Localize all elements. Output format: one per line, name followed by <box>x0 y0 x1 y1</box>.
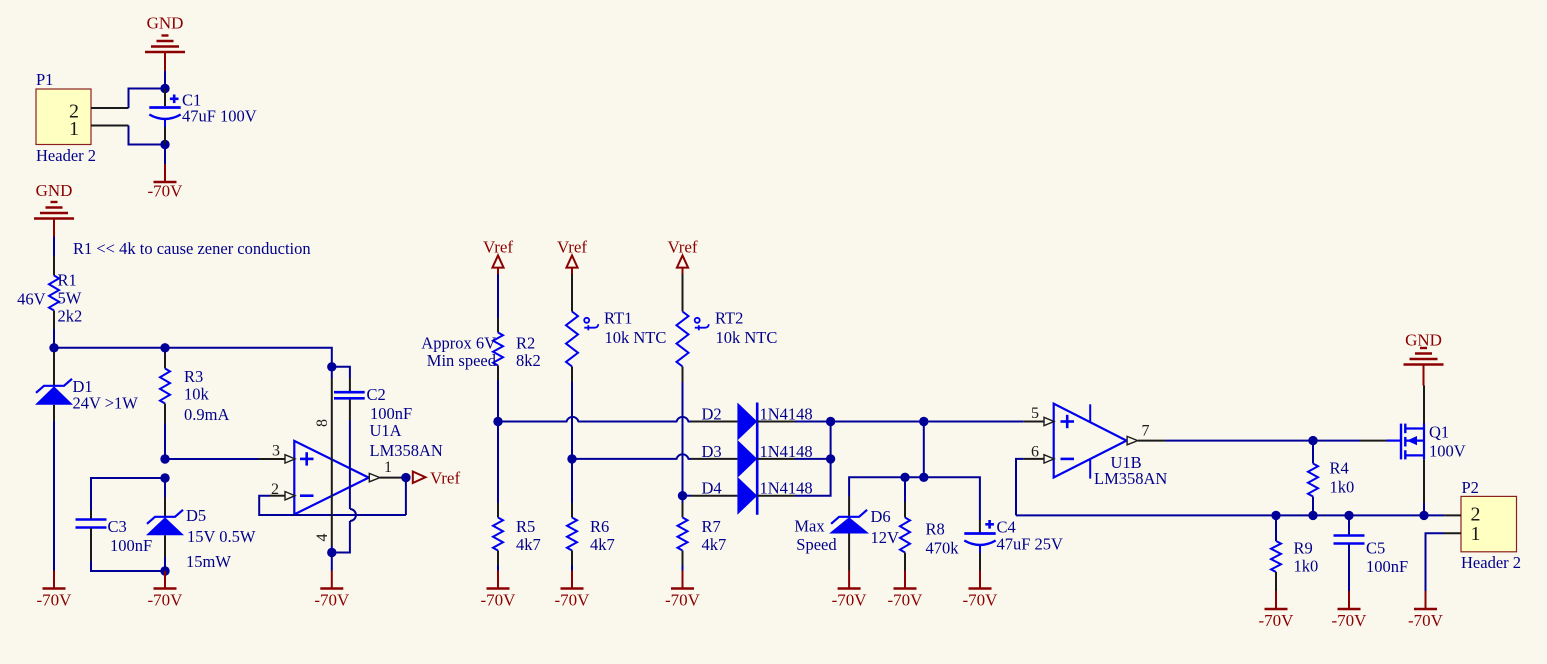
svg-text:-70V: -70V <box>148 182 184 201</box>
node D junction (R3 top) <box>160 343 169 352</box>
svg-text:3: 3 <box>272 443 280 460</box>
pin 4 of U1A <box>331 546 333 553</box>
zener diode D1 24V >1W <box>53 352 55 386</box>
svg-text:R3: R3 <box>184 367 203 386</box>
svg-text:GND: GND <box>1405 331 1442 350</box>
wire P1 pin2 to node A <box>129 89 166 109</box>
svg-text:6: 6 <box>1031 443 1039 460</box>
wire U1B output to Q1 gate <box>1166 440 1361 442</box>
svg-text:-70V: -70V <box>1332 611 1368 630</box>
svg-text:R1 << 4k to cause zener conduc: R1 << 4k to cause zener conduction <box>73 239 311 258</box>
svg-text:1k0: 1k0 <box>1330 478 1355 497</box>
wire R1 to node C <box>53 329 55 348</box>
svg-text:47uF 100V: 47uF 100V <box>182 107 257 126</box>
resistor R1 5W 2k2 <box>53 256 55 276</box>
node Q junction <box>919 473 928 482</box>
pin 1 of U1A (output) <box>369 473 380 481</box>
svg-text:8: 8 <box>314 419 331 427</box>
node A junction <box>160 84 169 93</box>
svg-text:0.9mA: 0.9mA <box>184 405 229 424</box>
power -70V below C4 <box>979 571 981 589</box>
resistor R9 1k0 <box>1275 515 1277 541</box>
node K junction (R2/R5 tap) <box>493 417 502 426</box>
svg-text:-70V: -70V <box>481 591 517 610</box>
resistor R7 4k7 <box>682 496 684 503</box>
node T junction (R9) <box>1271 511 1280 520</box>
svg-text:470k: 470k <box>926 539 960 558</box>
svg-text:Min speed: Min speed <box>427 351 497 370</box>
svg-text:47uF 25V: 47uF 25V <box>997 535 1064 554</box>
diode D4 1N4148 <box>691 495 737 497</box>
svg-text:R4: R4 <box>1330 459 1349 478</box>
svg-text:1: 1 <box>384 459 392 476</box>
node P junction (sum node) <box>919 417 928 426</box>
wire output rail <box>1016 514 1444 516</box>
svg-text:Max: Max <box>794 517 825 536</box>
capacitor C3 100nF <box>91 478 165 510</box>
svg-text:R1: R1 <box>58 271 77 290</box>
svg-text:GND: GND <box>147 14 184 33</box>
svg-text:8k2: 8k2 <box>516 351 541 370</box>
svg-text:2k2: 2k2 <box>58 307 83 326</box>
pin 3 of U1A <box>258 458 285 460</box>
thermistor RT2 10k NTC <box>682 274 684 312</box>
svg-text:P2: P2 <box>1462 478 1479 497</box>
svg-text:-70V: -70V <box>963 591 999 610</box>
svg-text:Header 2: Header 2 <box>1461 553 1521 572</box>
svg-text:Vref: Vref <box>430 469 460 488</box>
power port Vref 1 <box>492 255 503 267</box>
diode D3 1N4148 <box>691 458 737 460</box>
svg-text:Vref: Vref <box>667 238 697 257</box>
svg-text:10k NTC: 10k NTC <box>716 328 778 347</box>
svg-text:4k7: 4k7 <box>590 535 615 554</box>
wire Q1 source to output rail <box>1423 459 1425 503</box>
svg-text:46V: 46V <box>17 290 46 309</box>
pin 5 of U1B <box>1024 421 1044 423</box>
wire rail1 with hops to D2 <box>498 417 691 422</box>
svg-text:-70V: -70V <box>888 591 924 610</box>
power -70V below P2 <box>1425 591 1427 609</box>
capacitor C1 47uF 100V <box>164 89 166 107</box>
svg-text:Vref: Vref <box>557 238 587 257</box>
power port Vref output <box>413 472 426 484</box>
wire U1A feedback (pin2 loop) <box>259 496 406 515</box>
svg-text:100nF: 100nF <box>110 536 152 555</box>
node O junction <box>826 454 835 463</box>
svg-text:R8: R8 <box>926 520 945 539</box>
pin 2 of U1A <box>270 495 285 497</box>
capacitor C4 47uF 25V <box>979 520 981 533</box>
wire node N to U1B pin5 <box>831 421 1024 423</box>
svg-text:D3: D3 <box>702 442 722 461</box>
wire max-speed rail <box>849 477 980 520</box>
svg-text:15mW: 15mW <box>186 552 231 571</box>
svg-text:5: 5 <box>1031 405 1039 422</box>
svg-text:-70V: -70V <box>832 591 868 610</box>
svg-text:-70V: -70V <box>37 591 73 610</box>
resistor R4 1k0 <box>1312 441 1314 464</box>
power -70V below R6 <box>571 571 573 589</box>
wire D4 cathode <box>757 495 795 497</box>
svg-text:Vref: Vref <box>483 238 513 257</box>
svg-text:LM358AN: LM358AN <box>370 441 443 460</box>
svg-text:Approx 6V: Approx 6V <box>421 334 496 353</box>
svg-text:10k: 10k <box>184 385 210 404</box>
node L junction (RT1/R6 tap) <box>567 454 576 463</box>
svg-text:4: 4 <box>314 534 331 542</box>
svg-text:D6: D6 <box>871 507 891 526</box>
svg-text:R6: R6 <box>590 517 609 536</box>
svg-text:C5: C5 <box>1366 539 1385 558</box>
wire output down to feedback <box>405 478 407 515</box>
svg-text:Q1: Q1 <box>1429 423 1449 442</box>
power -70V below R8 <box>904 571 906 589</box>
svg-text:R9: R9 <box>1294 539 1313 558</box>
capacitor C2 100nF <box>332 367 350 378</box>
svg-text:R2: R2 <box>516 334 535 353</box>
wire P2 pin1 to -70V <box>1426 533 1445 591</box>
svg-text:15V 0.5W: 15V 0.5W <box>187 527 256 546</box>
pin 7 of U1B (output) <box>1127 436 1138 444</box>
wire D2 cathode to node N <box>757 421 795 423</box>
wire GND to R1 <box>53 237 55 257</box>
node I junction (pin4/C2 bottom) <box>327 548 336 557</box>
node E junction (C2 / pin8) <box>327 362 336 371</box>
resistor R6 4k7 <box>571 459 573 503</box>
capacitor C5 100nF <box>1348 515 1350 535</box>
svg-text:-70V: -70V <box>1259 611 1295 630</box>
svg-text:C2: C2 <box>367 385 386 404</box>
wire U1B feedback from rail <box>1016 459 1024 516</box>
node C junction <box>49 343 58 352</box>
node U junction (R4 bottom) <box>1308 511 1317 520</box>
zener diode D5 15V 0.5W <box>164 497 166 517</box>
wire GND to node C1-top <box>164 71 166 89</box>
power -70V below R9 <box>1275 591 1277 609</box>
svg-text:1k0: 1k0 <box>1294 557 1319 576</box>
svg-text:-70V: -70V <box>1408 611 1444 630</box>
svg-text:100nF: 100nF <box>1366 557 1408 576</box>
svg-text:D4: D4 <box>702 479 722 498</box>
power -70V below D6 <box>848 571 850 589</box>
svg-text:P1: P1 <box>36 70 53 89</box>
wire node G down to D5 <box>164 478 166 497</box>
resistor R8 470k <box>904 477 906 502</box>
wire P1 pin1 to node B <box>129 126 166 145</box>
node H junction (D5 bottom) <box>160 566 169 575</box>
power port Vref 3 <box>677 255 688 267</box>
svg-text:100V: 100V <box>1429 442 1466 461</box>
node G junction (C3/D5 top) <box>160 473 169 482</box>
wire node P down to max-speed rail <box>923 422 925 478</box>
power port Vref 2 <box>566 255 577 267</box>
svg-text:-70V: -70V <box>555 591 591 610</box>
power -70V below U1A <box>331 553 333 571</box>
op-amp U1B LM358AN <box>1054 404 1127 478</box>
wire D1 to -70V <box>53 421 55 571</box>
diode cathode bar <box>756 403 759 515</box>
svg-text:LM358AN: LM358AN <box>1094 469 1167 488</box>
wire Vref1 to R2 <box>497 274 499 318</box>
svg-text:D5: D5 <box>186 506 206 525</box>
resistor R5 4k7 <box>497 422 499 504</box>
connector P1 (Header 2) <box>36 89 91 145</box>
svg-text:RT2: RT2 <box>715 309 743 328</box>
wire C2 down with hop over feedback <box>349 420 351 509</box>
node V junction (C5) <box>1344 511 1353 520</box>
power -70V below R5 <box>497 571 499 589</box>
node S junction (R4 top) <box>1308 436 1317 445</box>
svg-text:7: 7 <box>1142 422 1150 439</box>
svg-text:4k7: 4k7 <box>516 535 541 554</box>
svg-text:100nF: 100nF <box>370 404 412 423</box>
node R junction (R8 top) <box>900 473 909 482</box>
node W junction (Q1 source) <box>1419 511 1428 520</box>
svg-text:24V >1W: 24V >1W <box>73 394 139 413</box>
power -70V below C5 <box>1348 591 1350 609</box>
resistor R3 10k <box>164 348 166 353</box>
connector P2 (Header 2) <box>1461 496 1517 551</box>
node B junction <box>160 140 169 149</box>
resistor R2 8k2 <box>497 318 499 333</box>
svg-text:R7: R7 <box>702 517 721 536</box>
zener diode D6 12V <box>848 497 850 517</box>
diode D2 1N4148 <box>691 421 737 423</box>
wire Q1 drain <box>1423 386 1425 424</box>
thermistor RT1 10k NTC <box>571 274 573 296</box>
svg-text:D2: D2 <box>702 405 722 424</box>
pin 6 of U1B <box>1024 458 1044 460</box>
svg-text:1: 1 <box>1471 523 1481 545</box>
node J junction (U1A output) <box>401 473 410 482</box>
svg-text:2: 2 <box>271 481 279 498</box>
svg-text:10k NTC: 10k NTC <box>605 328 667 347</box>
svg-text:4k7: 4k7 <box>702 535 727 554</box>
svg-text:Speed: Speed <box>796 535 837 554</box>
svg-text:5W: 5W <box>58 289 82 308</box>
svg-text:Header 2: Header 2 <box>36 146 96 165</box>
svg-text:R5: R5 <box>516 517 535 536</box>
svg-text:RT1: RT1 <box>604 309 632 328</box>
wire rail3 to D4 <box>683 495 692 497</box>
power -70V below C1 <box>164 145 166 165</box>
svg-text:-70V: -70V <box>314 591 350 610</box>
svg-text:1: 1 <box>69 118 79 140</box>
node M junction (RT2/R7 tap) <box>678 491 687 500</box>
svg-text:C3: C3 <box>108 517 127 536</box>
wire rail2 with hop to D3 <box>572 454 691 459</box>
op-amp U1A LM358AN <box>294 441 368 515</box>
svg-text:U1A: U1A <box>370 421 402 440</box>
svg-text:12V: 12V <box>871 528 900 547</box>
wire node C rail to op-amp supply <box>54 348 332 367</box>
node N junction <box>826 417 835 426</box>
node F junction (pin3 tap) <box>160 454 169 463</box>
svg-text:-70V: -70V <box>665 591 701 610</box>
wire node F to U1A pin 3 <box>165 458 258 460</box>
power -70V below D5 <box>164 571 166 589</box>
svg-text:-70V: -70V <box>148 591 184 610</box>
wire D3 cathode <box>757 458 795 460</box>
svg-text:GND: GND <box>36 181 73 200</box>
power -70V below R7 <box>682 571 684 589</box>
power -70V below D1 <box>53 571 55 589</box>
transistor Q1 MOSFET 100V <box>1360 440 1387 442</box>
pin 8 of U1A <box>331 367 333 378</box>
